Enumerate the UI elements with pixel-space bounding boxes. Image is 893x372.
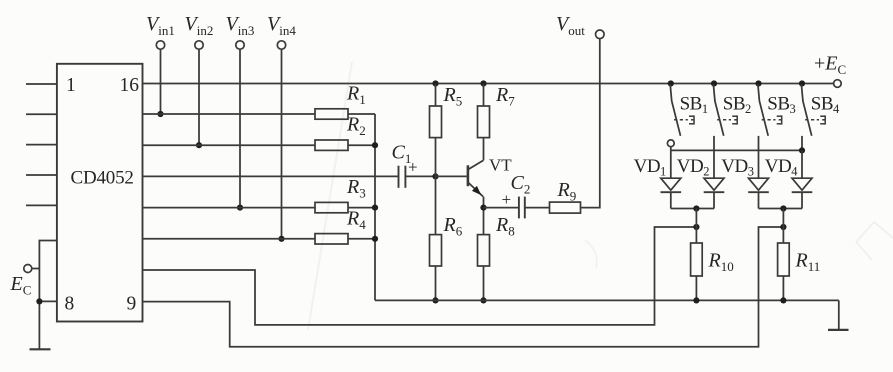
wire R6 to bottom rail	[435, 266, 437, 300]
wire C2 to R9	[525, 207, 550, 209]
wire bus R1-R4 to bottom rail	[374, 114, 376, 300]
junction rail/SB4	[799, 80, 805, 86]
junction R10/bottom rail	[693, 297, 699, 303]
ground left	[30, 348, 51, 350]
label R8	[495, 214, 515, 239]
wire VD3-VD4 cathode rail	[759, 208, 803, 210]
label Vin4	[267, 13, 296, 38]
junction Vin3 node	[237, 205, 243, 211]
label SB2	[723, 93, 751, 116]
diode VD2	[704, 150, 725, 208]
label VT	[489, 156, 512, 175]
wire cathode node to R10	[695, 209, 697, 244]
wire ground rail drop right	[838, 300, 840, 330]
junction wireA/R10 column	[693, 224, 699, 230]
label Vin2	[185, 13, 214, 38]
label R6	[443, 214, 463, 239]
label +EC	[814, 53, 846, 78]
label VD2	[677, 156, 709, 179]
label R2	[346, 114, 366, 139]
resistor R2	[315, 140, 375, 150]
junction emitter node	[480, 205, 486, 211]
wire Vin4 drop	[281, 49, 283, 239]
svg-text:CD4052: CD4052	[71, 167, 134, 188]
wire pin 8 to EC vertical	[39, 300, 57, 302]
label Vin3	[226, 13, 255, 38]
junction rail/SB2	[711, 80, 717, 86]
capacitor C2	[519, 197, 525, 219]
label VD1	[634, 156, 666, 179]
label VD3	[721, 156, 753, 179]
wire R7 to collector	[483, 138, 485, 161]
diode VD4	[792, 150, 813, 208]
junction Vin1 node	[157, 111, 163, 117]
wire base node to R6	[435, 176, 437, 234]
resistor R8	[478, 235, 490, 266]
wire Vin1 drop	[160, 49, 162, 114]
svg-text:16: 16	[120, 75, 140, 96]
junction rail/SB1	[668, 80, 674, 86]
wire row pin to R2	[143, 144, 316, 146]
junction cathode rail/R10	[693, 205, 699, 211]
wire +EC top rail	[143, 83, 834, 85]
diode VD1	[661, 150, 682, 208]
terminal SB1 bottom circle	[667, 140, 674, 147]
label SB1	[680, 93, 708, 116]
label R11	[795, 250, 821, 275]
label Vin1	[146, 13, 175, 38]
label C2 plus	[502, 190, 512, 209]
switch SB2 pushbutton	[713, 84, 737, 136]
junction rail/R7	[480, 80, 486, 86]
label C1 plus	[408, 158, 418, 177]
wire R11 to bottom rail	[782, 276, 784, 300]
wire left pin stub 2	[26, 113, 57, 115]
svg-text:8: 8	[65, 294, 75, 315]
junction rail/SB3	[755, 80, 761, 86]
wire R10 to bottom rail	[695, 276, 697, 300]
wire row pin to R1	[143, 113, 316, 115]
switch SB4 pushbutton	[801, 84, 825, 136]
wire left pin stub 5	[26, 204, 57, 206]
wire EC terminal stub	[32, 268, 40, 270]
wire IC pin 9 to VD3/VD4 cathode node	[143, 227, 784, 347]
label R10	[708, 250, 734, 275]
junction base node	[432, 173, 438, 179]
wire VD1-VD2 cathode rail	[671, 208, 714, 210]
terminal +EC circle	[834, 80, 842, 88]
label R3	[346, 176, 366, 201]
resistor R3	[315, 202, 375, 212]
junction R8/bottom rail	[480, 297, 486, 303]
resistor R6	[430, 235, 442, 266]
ground right	[828, 329, 849, 331]
wire emitter to C2	[484, 207, 519, 209]
junction Vin4 node	[278, 236, 284, 242]
resistor R9	[550, 202, 581, 213]
label Vout	[556, 13, 585, 38]
diode VD3	[748, 150, 769, 208]
junction rail/R5	[432, 80, 438, 86]
pin 16 label	[120, 75, 140, 96]
junction R11/bottom rail	[780, 297, 786, 303]
resistor R7	[478, 106, 490, 138]
pin 1 label	[66, 75, 76, 96]
wire SB1 circle to anode rail	[670, 147, 672, 151]
switch SB3 pushbutton	[758, 84, 782, 136]
resistor R5	[430, 106, 442, 138]
wire SB3 bottom terminal	[758, 136, 760, 151]
terminal Vin3 circle	[236, 41, 244, 49]
wire emitter node to R8	[483, 208, 485, 235]
label R1	[346, 83, 366, 108]
wire diode anode rail	[671, 149, 802, 151]
transistor Q1 VT	[436, 160, 484, 207]
wire pin VEE/VSS to EC vertical	[39, 241, 57, 350]
resistor R11	[778, 243, 790, 276]
resistor R10	[691, 243, 703, 276]
wire R9 to Vout	[581, 39, 600, 208]
wire cathode node to R11	[782, 209, 784, 244]
IC U1 CD4052	[57, 64, 143, 322]
svg-text:VT: VT	[489, 156, 512, 175]
junction Vin2 node	[196, 142, 202, 148]
pin 8 label	[65, 294, 75, 315]
label C2	[511, 172, 531, 197]
label R9	[557, 179, 577, 204]
label EC	[10, 273, 32, 298]
wire Vin2 drop	[198, 49, 200, 145]
wire row pin to R3	[143, 207, 316, 209]
junction wireB/R11 column	[780, 224, 786, 230]
wire left pin stub 1	[26, 83, 57, 85]
junction pin8/EC	[36, 298, 42, 304]
wire R5 to base node	[435, 138, 437, 177]
wire SB4 bottom terminal	[801, 136, 803, 151]
wire row pin to C1	[143, 175, 399, 177]
junction bus/R3	[372, 205, 378, 211]
label R4	[346, 207, 366, 232]
label R7	[495, 84, 515, 109]
svg-text:9: 9	[127, 294, 137, 315]
wire left pin stub 4	[26, 174, 57, 176]
wire rail to R5	[435, 84, 437, 107]
junction cathode rail/R11	[780, 205, 786, 211]
terminal Vout circle	[596, 30, 605, 39]
junction bus/R2	[372, 142, 378, 148]
wire SB2 bottom terminal	[713, 136, 715, 151]
pin 9 label	[127, 294, 137, 315]
label C1	[392, 142, 412, 167]
wire bottom ground rail	[375, 299, 839, 301]
svg-text:1: 1	[66, 75, 76, 96]
terminal Vin2 circle	[195, 41, 203, 49]
junction anode rail/SB4	[799, 147, 805, 153]
junction R6/bottom rail	[432, 297, 438, 303]
terminal Vin1 circle	[156, 41, 164, 49]
switch SB1 pushbutton	[670, 84, 694, 136]
label SB3	[767, 93, 795, 116]
IC U1 name label CD4052	[71, 167, 134, 188]
resistor R1	[315, 109, 375, 119]
terminal EC circle	[24, 265, 32, 273]
capacitor C1	[399, 166, 436, 188]
wire R8 to bottom rail	[483, 266, 485, 300]
resistor R4	[315, 234, 375, 244]
svg-text:+: +	[408, 158, 418, 177]
label SB4	[811, 93, 840, 116]
label R5	[443, 84, 463, 109]
terminal Vin4 circle	[277, 41, 285, 49]
wire left pin stub 3	[26, 144, 57, 146]
wire IC control A to VD1/VD2 cathode node	[143, 227, 697, 325]
wire row pin to R4	[143, 238, 316, 240]
junction bus/R4	[372, 236, 378, 242]
label VD4	[765, 156, 798, 179]
wire Vin3 drop	[239, 49, 241, 207]
wire rail to R7	[483, 84, 485, 107]
